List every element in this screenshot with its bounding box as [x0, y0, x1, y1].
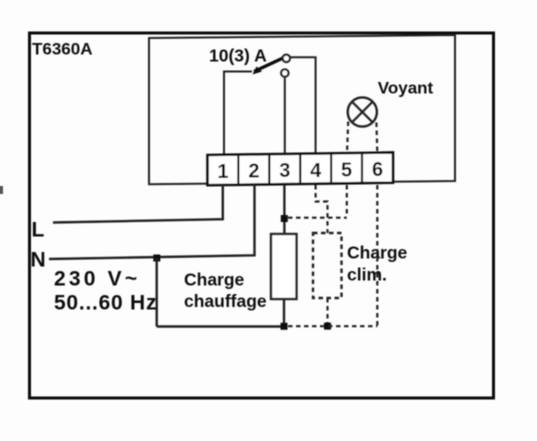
svg-text:4: 4	[310, 160, 322, 182]
dashed wire lamp to terminal 5	[347, 122, 348, 154]
terminal strip outline	[208, 153, 394, 186]
terminal separator 5|6	[361, 153, 363, 183]
svg-text:10(3) A: 10(3) A	[209, 46, 267, 66]
scan speck at left edge	[0, 186, 3, 194]
dashed wire lamp to terminal 6	[375, 123, 378, 154]
L wire to terminal 1	[53, 185, 223, 223]
bottom return wire dashed	[288, 325, 377, 327]
svg-text:50...60 Hz: 50...60 Hz	[54, 292, 157, 315]
dashed wire terminal 4 to clim box	[316, 185, 328, 233]
dashed wire junction to terminal 5	[288, 217, 347, 219]
lamp voyant symbol	[348, 97, 377, 126]
wire lower contact to terminal 3	[284, 77, 286, 155]
svg-text:2: 2	[248, 161, 259, 183]
node junction terminal3 wire	[281, 215, 288, 222]
wire upper contact to terminal 4	[290, 57, 316, 153]
node junction chauffage bottom	[281, 323, 288, 330]
resistor load clim dashed	[313, 233, 342, 298]
svg-text:5: 5	[341, 159, 352, 181]
resistor load chauffage	[271, 234, 297, 299]
switch blade with arrowhead	[254, 58, 283, 72]
node N junction	[153, 255, 160, 262]
dashed wire terminal 6 down	[376, 185, 378, 326]
svg-text:1: 1	[217, 161, 228, 183]
terminal separator 2|3	[268, 154, 270, 184]
svg-text:L: L	[32, 219, 45, 242]
terminal separator 4|5	[330, 153, 332, 183]
svg-text:T6360A: T6360A	[32, 40, 92, 59]
thermostat body rectangle	[149, 35, 455, 184]
switch contact upper	[283, 55, 290, 62]
dashed wire clim load down	[326, 298, 328, 326]
node junction clim bottom	[324, 323, 331, 330]
wire terminal 3 down	[283, 185, 285, 234]
outer border frame	[30, 33, 494, 398]
svg-text:chauffage: chauffage	[184, 291, 267, 311]
svg-text:clim.: clim.	[347, 265, 387, 285]
N wire to terminal 2	[49, 185, 255, 259]
svg-text:230 V~: 230 V~	[54, 268, 140, 291]
terminal separator 3|4	[299, 154, 301, 184]
wire N junction down	[155, 258, 157, 327]
svg-text:N: N	[31, 249, 46, 272]
svg-text:3: 3	[279, 160, 290, 182]
terminal separator 1|2	[237, 155, 239, 185]
wire terminal1 to switch	[224, 72, 252, 156]
dashed wire terminal 5 down	[346, 185, 348, 216]
svg-text:Charge: Charge	[184, 270, 245, 290]
wire chauffage load down	[283, 299, 285, 326]
switch contact lower	[281, 69, 288, 76]
svg-text:6: 6	[372, 159, 383, 181]
svg-text:Voyant: Voyant	[378, 79, 434, 98]
bottom return wire solid	[157, 325, 284, 327]
